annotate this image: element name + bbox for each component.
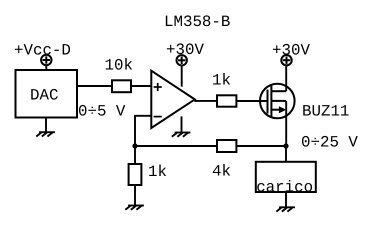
- svg-text:1k: 1k: [212, 72, 231, 90]
- wire node A down to R 1k and ground: [134, 146, 136, 206]
- transistor Q1 BUZ11 (N-MOSFET): [260, 84, 295, 119]
- resistor 1k (gate): [217, 95, 236, 106]
- op-amp U1 LM358-B triangle: [151, 71, 195, 128]
- svg-text:BUZ11: BUZ11: [302, 103, 349, 121]
- power symbol +Vcc-D: [41, 55, 51, 65]
- resistor 1k (feedback, vertical): [129, 164, 142, 185]
- wire op-amp bottom to ground: [181, 116, 183, 132]
- wire DAC to R 10k: [77, 85, 112, 87]
- svg-text:10k: 10k: [105, 57, 133, 75]
- carico (load) block: [256, 162, 316, 192]
- wire op-amp inverting input: [135, 116, 151, 146]
- svg-text:DAC: DAC: [30, 87, 58, 105]
- ground (DAC): [36, 132, 55, 136]
- wire feedback node to source node: [135, 145, 286, 147]
- svg-text:0÷5 V: 0÷5 V: [78, 103, 126, 121]
- wire 1k to MOSFET gate: [236, 100, 267, 102]
- power symbol +30V (MOSFET): [281, 55, 291, 65]
- svg-text:LM358-B: LM358-B: [164, 13, 230, 31]
- ground (R 1k): [125, 206, 144, 210]
- DAC block: [16, 70, 78, 118]
- node A (feedback junction): [132, 143, 137, 148]
- svg-text:4k: 4k: [212, 163, 231, 181]
- svg-text:1k: 1k: [148, 163, 167, 181]
- wire 10k to op-amp + input: [131, 85, 151, 87]
- resistor 4k: [217, 140, 236, 152]
- op-amp + input mark: [154, 83, 162, 91]
- svg-text:0÷25 V: 0÷25 V: [301, 134, 358, 152]
- wire MOSFET drain up to +30V: [285, 66, 287, 91]
- wire MOSFET source down to node: [285, 101, 287, 146]
- node B (source junction): [283, 143, 288, 148]
- ground (carico): [276, 207, 295, 211]
- wire node B down to carico: [285, 146, 287, 162]
- wire carico to ground: [285, 192, 287, 207]
- wire op-amp output to R 1k: [194, 100, 217, 102]
- MOSFET source arrow: [279, 106, 287, 113]
- resistor 10k: [112, 80, 131, 92]
- wire DAC bottom to ground: [45, 118, 47, 133]
- op-amp - input mark: [154, 116, 162, 118]
- wire Vcc stub to DAC: [45, 66, 47, 70]
- power symbol +30V (op-amp): [177, 55, 187, 65]
- ground (op-amp): [172, 133, 191, 137]
- svg-text:carico: carico: [256, 179, 313, 197]
- wire +30V to op-amp top: [181, 66, 183, 87]
